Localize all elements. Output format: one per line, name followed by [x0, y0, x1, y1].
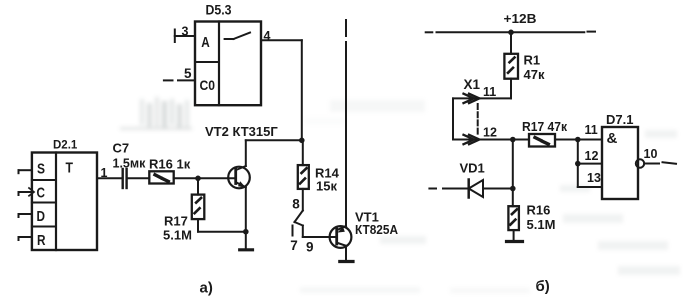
svg-text:3: 3 — [182, 24, 189, 38]
resistor R1 47k — [504, 32, 545, 98]
node emitter/R17 junction — [243, 229, 249, 235]
svg-text:D5.3: D5.3 — [206, 2, 232, 18]
analog switch D5.3 — [195, 2, 261, 106]
svg-text:15к: 15к — [316, 178, 337, 193]
svg-text:D: D — [37, 208, 46, 225]
resistor R16 1k — [149, 157, 191, 184]
svg-text:C: C — [37, 185, 46, 202]
ground under VT1 — [340, 246, 353, 262]
svg-text:а): а) — [200, 280, 213, 297]
svg-text:КТ825А: КТ825А — [355, 222, 399, 237]
svg-text:T: T — [66, 160, 74, 177]
scan bleed-through smudge left of D5.3 — [120, 97, 192, 130]
wire switch to VT1 base — [303, 236, 336, 238]
ground under VT2 — [240, 232, 253, 250]
wire collector to node — [246, 139, 302, 141]
input stub R — [19, 237, 32, 240]
pin 4 wire — [261, 29, 302, 140]
transistor VT1 KT825A — [330, 210, 399, 248]
X1 mechanical link dashed — [477, 104, 479, 134]
svg-text:+12В: +12В — [504, 11, 537, 26]
node pin12 tie — [575, 161, 581, 167]
svg-text:13: 13 — [587, 171, 601, 185]
svg-text:5.1M: 5.1M — [527, 217, 556, 232]
node rail/R1 — [508, 30, 514, 36]
output bubble pin 10 — [636, 147, 676, 168]
svg-text:11: 11 — [483, 85, 496, 99]
input stub S — [19, 170, 32, 173]
NAND gate D7.1 — [585, 112, 639, 199]
resistor R14 15k — [298, 140, 340, 193]
svg-text:8: 8 — [292, 196, 300, 211]
diode VD1 — [429, 161, 512, 198]
svg-text:11: 11 — [585, 123, 598, 137]
svg-text:&: & — [607, 130, 618, 147]
svg-text:5: 5 — [184, 66, 192, 81]
svg-text:R17: R17 — [164, 213, 188, 228]
resistor R17 47k (b) — [522, 119, 567, 147]
svg-text:R1: R1 — [524, 53, 541, 68]
node pin11 tie — [575, 137, 581, 143]
svg-text:X1: X1 — [464, 77, 481, 92]
pin 5 — [164, 66, 195, 81]
svg-text:10: 10 — [644, 147, 658, 161]
left loop wire — [452, 98, 454, 139]
wire C7 to R16 — [127, 177, 150, 179]
svg-text:R16 1к: R16 1к — [149, 157, 191, 172]
switch contact pins 8/7/9 — [290, 189, 313, 255]
wire R17 to gate — [555, 139, 602, 141]
resistor R16 5.1M (b) — [508, 203, 555, 233]
svg-text:б): б) — [536, 278, 550, 295]
svg-text:1.5мк: 1.5мк — [113, 157, 147, 171]
node R16/R17/base junction — [195, 176, 201, 182]
svg-text:VD1: VD1 — [460, 161, 485, 176]
+12V rail — [426, 11, 595, 33]
VT2 collector wire — [245, 140, 247, 166]
svg-text:12: 12 — [483, 126, 497, 140]
svg-text:12: 12 — [585, 149, 599, 163]
svg-text:5.1M: 5.1M — [163, 227, 192, 242]
tie wire 11-12-13 — [578, 140, 602, 188]
svg-text:VT2 КТ315Г: VT2 КТ315Г — [205, 124, 278, 139]
svg-text:1: 1 — [101, 166, 108, 180]
svg-text:7: 7 — [290, 238, 298, 253]
pin 1 wire — [97, 166, 122, 180]
svg-text:R16: R16 — [527, 203, 551, 218]
wire R16 to VT2 base — [174, 177, 236, 179]
svg-text:4: 4 — [264, 29, 271, 43]
connector X1 contact 11 — [453, 77, 511, 103]
svg-text:R: R — [37, 232, 46, 249]
ground under R16 — [507, 230, 523, 241]
svg-text:47к: 47к — [524, 67, 545, 82]
faint bleed-through speckles bottom right — [300, 130, 680, 293]
svg-text:S: S — [37, 161, 45, 178]
resistor R17 5.1M — [163, 178, 246, 242]
input stub D — [19, 214, 32, 217]
svg-text:9: 9 — [306, 239, 314, 254]
capacitor C7 1.5mk — [113, 141, 147, 188]
flip-flop D2.1 — [32, 140, 97, 251]
svg-text:C7: C7 — [113, 141, 130, 156]
svg-text:A: A — [201, 34, 210, 51]
svg-text:D7.1: D7.1 — [606, 112, 633, 127]
input stub C (dynamic) — [19, 188, 35, 196]
vertical branch to R16 — [512, 140, 514, 207]
connector X1 contact 12 — [453, 126, 529, 145]
transistor VT2 KT315G — [205, 124, 278, 189]
VT2 emitter wire — [245, 187, 247, 231]
svg-text:C0: C0 — [200, 77, 216, 93]
faint smudge band right of pin4 wire — [305, 100, 425, 124]
node collector/R14 — [299, 138, 305, 144]
node VD1/R16 — [510, 186, 516, 192]
svg-text:R17 47к: R17 47к — [522, 119, 567, 134]
pin 3 — [175, 24, 195, 42]
node contact12 / R16 branch — [510, 137, 516, 143]
svg-text:D2.1: D2.1 — [53, 140, 78, 152]
VT1 emitter wire up with break — [345, 20, 347, 226]
